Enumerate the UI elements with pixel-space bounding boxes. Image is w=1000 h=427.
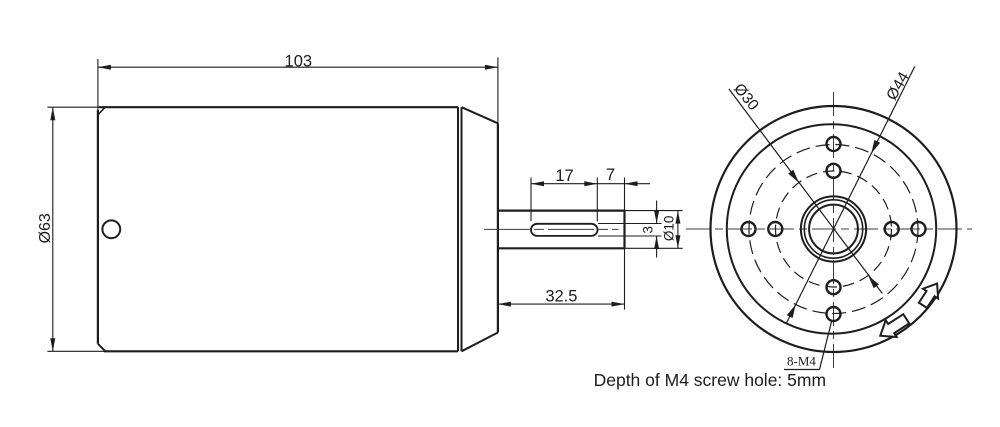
- svg-text:32.5: 32.5: [545, 288, 577, 306]
- hub circle inner: [809, 205, 858, 254]
- Ø30 arrow far: [868, 276, 879, 289]
- hub circle middle: [804, 200, 862, 258]
- dim Ø10 extension top: [625, 210, 683, 212]
- bottom extension line (Ø63): [47, 350, 104, 352]
- end cap top chamfer: [462, 107, 498, 123]
- svg-text:17: 17: [555, 167, 573, 185]
- Ø44 arrow far: [787, 305, 796, 319]
- hole M4 outer right: [912, 222, 926, 236]
- dim 103 extension right: [497, 58, 499, 124]
- dim 32.5 arrow right: [612, 302, 625, 307]
- top-left chamfer tick: [98, 108, 105, 115]
- shaft keyway slot: [531, 224, 598, 236]
- hole M4 inner right: [885, 222, 899, 236]
- dim 3 lower leader: [656, 236, 658, 258]
- dim 3 extension top: [598, 223, 662, 225]
- dim Ø63 arrow top: [50, 107, 55, 120]
- 8-M4 underline: [784, 369, 820, 371]
- dim 3 upper leader: [656, 201, 658, 224]
- dim 7 tail line: [625, 183, 651, 185]
- dim Ø10 arrow bottom: [675, 235, 680, 248]
- Ø44 arrow near: [871, 140, 880, 154]
- dim 17 extension right: [596, 178, 598, 222]
- leader line Ø30: [729, 89, 882, 294]
- bottom-left chamfer: [98, 344, 106, 352]
- body left edge extension up (103 dim): [97, 59, 99, 110]
- dim 7 arrow outside: [625, 181, 638, 186]
- front outer circle: [711, 106, 957, 352]
- motor body bottom edge: [104, 350, 458, 352]
- svg-text:Ø44: Ø44: [883, 69, 913, 103]
- hole M4 inner top: [827, 164, 841, 178]
- front view horizontal centerline: [686, 228, 972, 230]
- dim 103 arrow left: [98, 65, 111, 70]
- dim 17 extension left: [530, 178, 532, 222]
- svg-text:Ø63: Ø63: [37, 213, 54, 243]
- hub circle outer: [801, 196, 866, 261]
- dim 7 line: [597, 183, 624, 185]
- Ø30 arrow near: [788, 170, 799, 183]
- svg-text:3: 3: [641, 226, 656, 234]
- dim 17 arrow left: [531, 181, 544, 186]
- dim 103 arrow right: [485, 65, 498, 70]
- dim 32.5 arrow left: [498, 302, 511, 307]
- dim 17 arrow right: [584, 181, 597, 186]
- bolt circle Ø44 dashed: [749, 145, 918, 314]
- dim 32.5 line: [498, 303, 625, 305]
- shaft centerline: [484, 228, 619, 230]
- dim 3 extension bottom: [598, 235, 662, 237]
- leader line Ø44: [786, 66, 915, 324]
- top extension line (Ø63): [47, 106, 99, 108]
- end ring vertical 2: [461, 107, 463, 351]
- flange right edge: [497, 123, 499, 332]
- dim Ø63 arrow bottom: [50, 338, 55, 351]
- rotation arrow lower (hollow): [880, 314, 909, 337]
- side hole: [102, 220, 120, 238]
- dim Ø63 line: [52, 107, 54, 351]
- dim Ø10 arrow top: [675, 211, 680, 224]
- motor body top edge: [99, 106, 458, 108]
- dim 3 arrow lower: [654, 236, 659, 249]
- dim 17 line: [531, 183, 597, 185]
- svg-text:103: 103: [285, 52, 313, 70]
- svg-text:7: 7: [606, 166, 615, 184]
- hole M4 inner left: [768, 222, 782, 236]
- front view vertical centerline: [833, 92, 835, 368]
- hole M4 outer top: [827, 137, 841, 151]
- shaft end edge: [623, 211, 625, 249]
- shaft bottom edge: [498, 247, 625, 249]
- svg-text:Ø10: Ø10: [661, 216, 676, 242]
- shaft top edge: [498, 210, 625, 212]
- bolt circle Ø30 dashed: [776, 171, 892, 287]
- hole M4 outer bottom: [827, 307, 841, 321]
- body left edge: [97, 110, 99, 344]
- hole M4 outer left: [742, 222, 756, 236]
- svg-text:Depth of M4 screw hole: 5mm: Depth of M4 screw hole: 5mm: [594, 370, 826, 390]
- dim 7 extension right: [624, 178, 626, 211]
- dim 32.5 ext right below shaft: [624, 248, 626, 309]
- front rim circle: [727, 124, 936, 333]
- dim Ø10 extension bottom: [625, 247, 683, 249]
- 8-M4 leader: [820, 321, 832, 370]
- end ring vertical 1: [457, 107, 459, 351]
- dim 103 line: [98, 66, 498, 68]
- end cap bottom chamfer: [462, 333, 498, 352]
- svg-text:8-M4: 8-M4: [787, 354, 816, 369]
- hole M4 inner bottom: [827, 280, 841, 294]
- dim Ø10 line: [677, 211, 679, 249]
- dim 3 arrow upper: [654, 211, 659, 224]
- rotation arrow upper (hollow): [919, 284, 938, 308]
